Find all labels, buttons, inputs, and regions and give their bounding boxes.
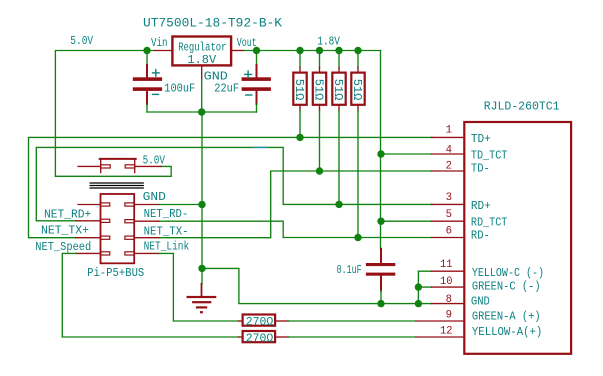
svg-text:Vout: Vout xyxy=(237,36,257,50)
svg-text:12: 12 xyxy=(440,325,452,337)
svg-text:2: 2 xyxy=(446,161,452,173)
wire Vin cap junction down xyxy=(146,51,148,66)
junction RD_TCT xyxy=(377,218,384,225)
resistor R1 51ohm xyxy=(299,51,301,68)
svg-text:GREEN-A (+): GREEN-A (+) xyxy=(472,310,541,324)
pin 6 RD- xyxy=(432,237,465,239)
resistor R2 51ohm xyxy=(319,51,321,68)
svg-text:51Ω: 51Ω xyxy=(331,79,345,101)
resistor R4 51ohm xyxy=(357,51,359,68)
pin GND regulator xyxy=(201,65,203,79)
wire RD- net (NET_RD- to pin6) xyxy=(159,221,432,237)
resistor R5 270ohm xyxy=(238,320,241,322)
junction GND below regulator xyxy=(198,108,205,115)
pin 3 RD+ xyxy=(432,203,465,205)
pin NET_RD+ left xyxy=(76,220,101,222)
junction GND bottom xyxy=(198,265,205,272)
junction Pi GND xyxy=(198,201,205,208)
svg-text:RD+: RD+ xyxy=(471,199,491,213)
pin 1 left unconnected xyxy=(78,204,100,206)
connector CN1 Pi-P5+BUS body xyxy=(101,194,135,263)
wire NET_Link down to R5 xyxy=(159,253,238,321)
svg-text:YELLOW-C (-): YELLOW-C (-) xyxy=(472,266,544,280)
svg-text:1: 1 xyxy=(446,125,453,137)
bus segment blue xyxy=(254,146,267,148)
svg-text:22uF: 22uF xyxy=(214,81,239,95)
svg-text:RD-: RD- xyxy=(471,229,490,243)
svg-text:GND: GND xyxy=(471,295,490,309)
wire 1.8V rail down to TCT pins xyxy=(380,51,382,249)
capacitor C2 22uF xyxy=(256,51,258,66)
pin Vin xyxy=(155,50,173,52)
svg-text:NET_RD-: NET_RD- xyxy=(144,207,189,221)
wire 1.8V rail xyxy=(244,50,381,52)
svg-text:TD_TCT: TD_TCT xyxy=(471,148,508,162)
wire gnd pin down xyxy=(201,79,203,112)
pin NET_TX- right xyxy=(134,237,159,239)
svg-text:TD-: TD- xyxy=(471,162,490,176)
pin NET_Speed left xyxy=(76,252,101,254)
wire R6 to pin12 xyxy=(289,336,416,338)
svg-text:10: 10 xyxy=(440,276,452,288)
svg-text:51Ω: 51Ω xyxy=(311,79,325,101)
wire TD+ net (pin1 to NET_TX+) xyxy=(29,137,433,237)
svg-text:YELLOW-A(+): YELLOW-A(+) xyxy=(472,325,542,339)
svg-text:RJLD-260TC1: RJLD-260TC1 xyxy=(484,100,560,114)
regulator U1 box xyxy=(172,37,231,66)
svg-text:5: 5 xyxy=(446,209,452,221)
svg-text:11: 11 xyxy=(440,259,453,271)
svg-text:3: 3 xyxy=(446,192,452,204)
svg-text:NET_RD+: NET_RD+ xyxy=(44,208,91,222)
svg-text:NET_Speed: NET_Speed xyxy=(35,240,91,254)
svg-text:GREEN-C (-): GREEN-C (-) xyxy=(472,280,541,294)
wire gnd bottom horizontal xyxy=(147,111,257,113)
junction Vin xyxy=(143,47,150,54)
pin 4 TD_TCT xyxy=(432,153,465,155)
junction Vout cap xyxy=(253,47,260,54)
wire RD+ net (NET_RD+ to pin3 via y147) xyxy=(36,147,432,220)
svg-text:6: 6 xyxy=(446,226,452,238)
svg-text:GND: GND xyxy=(143,190,166,204)
pin Vout xyxy=(231,50,243,52)
wire Pi GND to gnd vertical xyxy=(159,204,202,206)
pin GND right xyxy=(134,204,159,206)
wire TD- net (NET_TX- to pin2) xyxy=(159,171,432,238)
capacitor C1 100uF xyxy=(146,65,148,78)
ground symbol xyxy=(201,268,203,283)
bus hatch lines xyxy=(90,182,143,184)
svg-text:Pi-P5+BUS: Pi-P5+BUS xyxy=(87,266,144,280)
wire 5.0V rail top xyxy=(55,51,154,177)
pin 1 TD+ xyxy=(432,136,465,138)
svg-text:1.8V: 1.8V xyxy=(317,34,340,48)
resistor R3 51ohm xyxy=(338,51,340,68)
pin 11 YELLOW-C xyxy=(432,270,465,272)
header J1 5.0V two pin xyxy=(100,158,136,160)
pin NET_RD- right xyxy=(134,220,159,222)
svg-text:100uF: 100uF xyxy=(164,81,195,95)
wire pins 11 10 tie to gnd xyxy=(418,271,431,303)
svg-text:UT7500L-18-T92-B-K: UT7500L-18-T92-B-K xyxy=(143,16,282,31)
svg-text:4: 4 xyxy=(446,144,453,156)
wire TD_TCT pin4 xyxy=(381,153,432,155)
svg-text:51Ω: 51Ω xyxy=(292,79,306,101)
wire RD_TCT pin5 xyxy=(381,220,432,222)
wire R5 to pin9 xyxy=(289,320,416,322)
pin 8 GND xyxy=(432,303,465,305)
wire 5.0V to header right pin xyxy=(55,166,171,176)
svg-text:NET_Link: NET_Link xyxy=(144,240,190,254)
pin NET_TX+ left xyxy=(76,237,101,239)
pin NET_Link right xyxy=(134,252,159,254)
wire GND to pin8 xyxy=(202,268,432,303)
svg-text:0.1uF: 0.1uF xyxy=(337,263,362,277)
pin 2 TD- xyxy=(432,170,465,172)
wire GND vertical xyxy=(201,112,203,268)
svg-text:270Ω: 270Ω xyxy=(246,315,273,329)
svg-text:RD_TCT: RD_TCT xyxy=(471,215,508,229)
pin 9 GREEN-A xyxy=(416,320,464,322)
svg-text:8: 8 xyxy=(446,294,452,306)
junction TD_TCT xyxy=(377,150,384,157)
pin 10 GREEN-C xyxy=(432,286,465,288)
resistor R6 270ohm xyxy=(238,336,241,338)
svg-text:5.0V: 5.0V xyxy=(143,153,166,167)
wire NET_Speed down to R6 xyxy=(62,253,238,337)
svg-text:51Ω: 51Ω xyxy=(350,79,364,101)
svg-text:NET_TX+: NET_TX+ xyxy=(41,224,89,238)
svg-text:5.0V: 5.0V xyxy=(70,34,93,48)
svg-text:NET_TX-: NET_TX- xyxy=(144,224,189,238)
capacitor C3 0.1uF xyxy=(380,249,382,263)
svg-text:9: 9 xyxy=(446,310,452,322)
svg-text:270Ω: 270Ω xyxy=(246,331,273,345)
svg-text:Vin: Vin xyxy=(151,36,168,50)
connector J2 RJLD-260TC1 box xyxy=(464,122,571,354)
wire cap1 bottom xyxy=(146,104,148,112)
pin 12 YELLOW-A xyxy=(416,336,464,338)
svg-text:TD+: TD+ xyxy=(471,132,491,146)
pin 5 RD_TCT xyxy=(432,220,465,222)
